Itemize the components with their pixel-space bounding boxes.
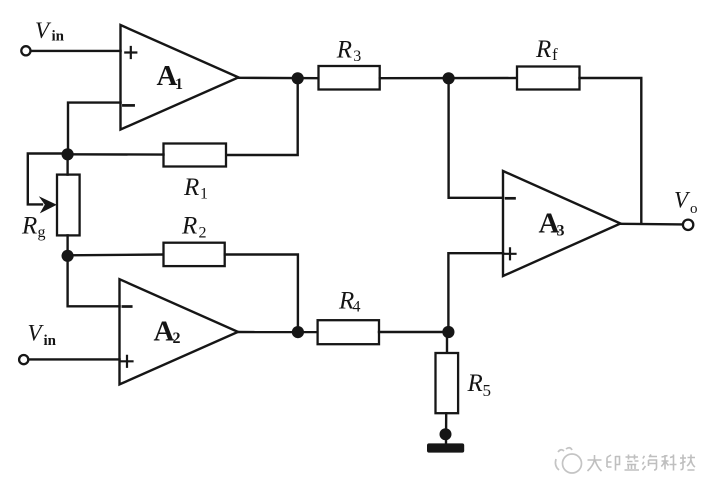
terminal Vo bbox=[683, 220, 693, 230]
resistor R2 bbox=[164, 243, 225, 266]
op-amp A2 bbox=[120, 279, 239, 384]
wire R2 right then down to A2 output node bbox=[225, 255, 298, 333]
label A2 bbox=[154, 316, 181, 348]
label R3 bbox=[336, 36, 361, 65]
resistor R1 bbox=[164, 144, 227, 167]
node R3/Rf bbox=[443, 72, 455, 84]
svg-text:3: 3 bbox=[353, 48, 361, 65]
label R2 bbox=[181, 212, 207, 241]
resistor Rf bbox=[517, 67, 580, 90]
svg-text:V: V bbox=[35, 18, 52, 43]
svg-text:R: R bbox=[336, 36, 352, 63]
node Rg bottom bbox=[62, 250, 74, 262]
arrowhead wiper bbox=[39, 196, 57, 213]
node above ground bbox=[440, 428, 452, 440]
wire node down to A2 - input bbox=[68, 256, 120, 306]
wire Rg top lead bbox=[66, 154, 68, 174]
svg-text:R: R bbox=[535, 36, 551, 63]
wire Rf right then down to A3 output bbox=[580, 78, 642, 224]
wire node down to A3 - input bbox=[449, 78, 503, 198]
pin + A3 bbox=[505, 248, 516, 259]
svg-text:1: 1 bbox=[200, 186, 208, 203]
terminal Vin bottom bbox=[19, 355, 28, 364]
label A3 bbox=[539, 208, 565, 240]
wire A2 output to R4 bbox=[238, 331, 318, 334]
terminal Vin top bbox=[21, 46, 30, 55]
wire R1 left to Rg node bbox=[68, 153, 164, 156]
wire node up to A3 + input bbox=[448, 253, 503, 332]
label Vin top bbox=[35, 18, 65, 45]
watermark logo bbox=[555, 448, 581, 473]
label R5 bbox=[467, 370, 492, 400]
svg-text:g: g bbox=[38, 224, 46, 241]
pin + A2 bbox=[122, 356, 133, 367]
label R1 bbox=[183, 174, 208, 203]
wire A1 - input bbox=[68, 103, 121, 155]
wire Vin top to A1 + input bbox=[31, 50, 120, 52]
label R4 bbox=[338, 288, 361, 316]
ground bbox=[427, 443, 464, 452]
wire pot wiper arm bbox=[28, 154, 68, 205]
wire R4 right to R5 node bbox=[379, 331, 448, 333]
svg-text:3: 3 bbox=[557, 223, 565, 240]
wire R3 right to Rf left bbox=[380, 77, 517, 80]
label Vin bottom bbox=[28, 321, 57, 350]
svg-text:o: o bbox=[690, 201, 698, 217]
resistor R4 bbox=[318, 320, 379, 344]
svg-text:in: in bbox=[52, 29, 65, 45]
svg-text:2: 2 bbox=[173, 330, 181, 347]
svg-text:1: 1 bbox=[175, 76, 183, 93]
node A2 output bbox=[292, 326, 304, 338]
svg-text:R: R bbox=[181, 212, 197, 239]
pin - A2 bbox=[123, 305, 131, 308]
svg-text:R: R bbox=[467, 370, 483, 397]
wire node down to R1 right bbox=[226, 78, 298, 155]
svg-text:5: 5 bbox=[483, 381, 492, 400]
node R4/R5 bbox=[442, 326, 454, 338]
resistor R3 bbox=[319, 66, 380, 90]
op-amp A1 bbox=[121, 25, 239, 130]
svg-text:V: V bbox=[28, 321, 45, 346]
resistor Rg (vertical) bbox=[57, 175, 80, 236]
watermark text bbox=[588, 455, 696, 472]
pin - A1 bbox=[123, 104, 133, 107]
svg-text:V: V bbox=[674, 188, 691, 213]
label A1 bbox=[157, 60, 184, 93]
svg-text:in: in bbox=[44, 333, 57, 349]
wire node down to R5 bbox=[446, 332, 448, 353]
wire A1 output to R3 bbox=[239, 77, 319, 80]
label Rg bbox=[21, 212, 46, 241]
svg-text:f: f bbox=[552, 45, 558, 64]
label Vo bbox=[674, 188, 698, 218]
node A1 output bbox=[292, 72, 304, 84]
pin + A1 bbox=[125, 47, 136, 58]
wire Rg bottom lead bbox=[66, 235, 68, 255]
wire R5 bottom to ground bbox=[445, 413, 448, 443]
svg-text:A: A bbox=[154, 316, 175, 348]
pin - A3 bbox=[506, 197, 514, 200]
label Rf bbox=[535, 36, 558, 64]
svg-text:2: 2 bbox=[199, 225, 207, 242]
svg-text:4: 4 bbox=[353, 298, 361, 315]
wire A3 output to Vo bbox=[621, 223, 682, 226]
op-amp A3 bbox=[503, 171, 621, 276]
resistor R5 (vertical) bbox=[436, 353, 459, 413]
svg-text:R: R bbox=[183, 174, 199, 201]
node Rg top bbox=[62, 148, 74, 160]
svg-text:R: R bbox=[21, 212, 37, 239]
wire Vin bottom to A2 + input bbox=[29, 358, 119, 360]
wire node to R2 left bbox=[68, 253, 164, 256]
